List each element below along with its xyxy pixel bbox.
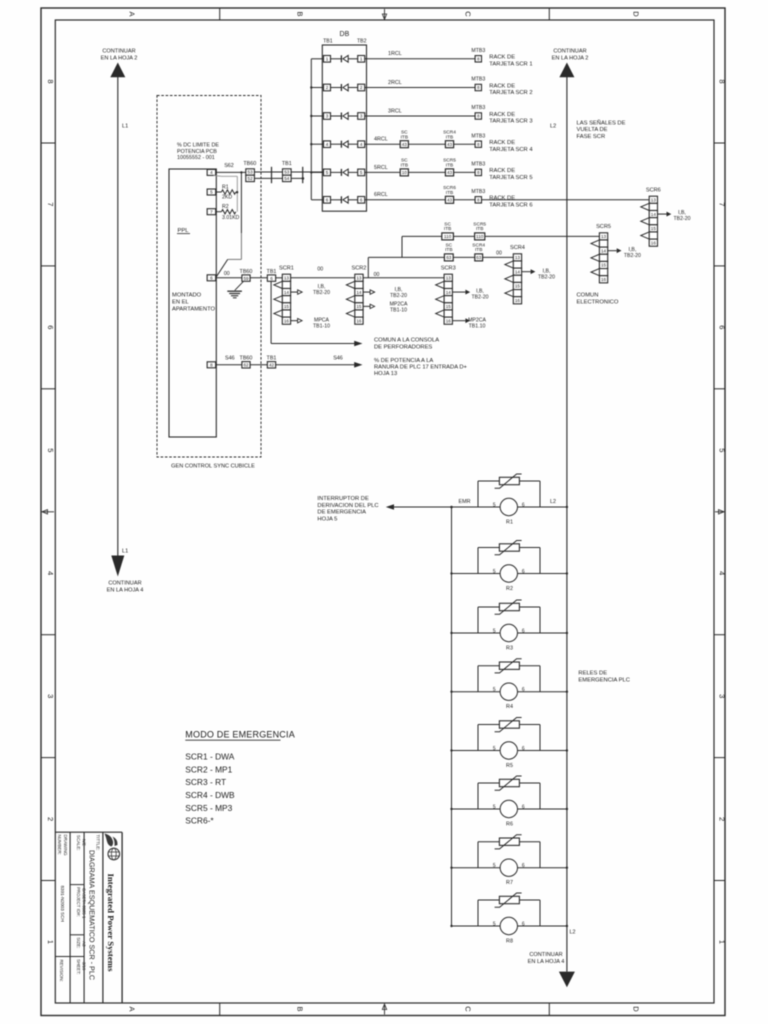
wire 4RCL row — [365, 143, 401, 145]
DB terminal TB1-6 — [324, 197, 331, 204]
svg-text:00: 00 — [224, 271, 230, 277]
svg-text:HOJA 13: HOJA 13 — [374, 371, 397, 377]
terminal 8 — [207, 362, 216, 368]
arrow SCR6-14 output — [658, 213, 667, 215]
svg-text:CONTINUAR: CONTINUAR — [529, 952, 562, 958]
svg-text:TB1.10: TB1.10 — [469, 324, 486, 330]
svg-text:TB1-10: TB1-10 — [313, 323, 330, 329]
DB row 2 bus stub wire — [311, 87, 323, 89]
svg-text:14: 14 — [356, 290, 362, 295]
svg-text:L1: L1 — [122, 124, 128, 130]
svg-text:CONTINUAR: CONTINUAR — [553, 49, 586, 55]
svg-text:63: 63 — [476, 255, 482, 260]
svg-text:RACK DE: RACK DE — [489, 112, 515, 118]
svg-text:ITB: ITB — [475, 247, 482, 253]
wire TB60-52 to tick end — [254, 177, 303, 179]
wire terminal 6 to TB60-59 — [216, 277, 242, 279]
svg-text:% DE POTENCIA A LA: % DE POTENCIA A LA — [374, 358, 433, 364]
relay left rail — [451, 507, 453, 926]
svg-text:PPL: PPL — [178, 228, 190, 234]
wire 6RCL row to SCR6 winding — [482, 199, 650, 201]
svg-text:16: 16 — [601, 277, 607, 282]
DB terminal TB1-1 — [324, 56, 331, 63]
svg-text:10055552 - 001: 10055552 - 001 — [177, 155, 215, 161]
svg-text:TARJETA SCR 4: TARJETA SCR 4 — [489, 147, 533, 153]
svg-text:00: 00 — [374, 272, 380, 278]
svg-text:S62: S62 — [224, 163, 234, 169]
svg-text:LAS SEÑALES DE: LAS SEÑALES DE — [577, 119, 626, 126]
varistor V5 — [495, 718, 522, 732]
svg-text:6: 6 — [718, 325, 727, 329]
varistor branch R8 — [478, 900, 540, 926]
junction EMR rail — [450, 506, 453, 509]
svg-text:R2: R2 — [506, 586, 513, 592]
svg-text:CASETA 8085-1: CASETA 8085-1 — [81, 888, 86, 919]
DB row 3 bus stub wire — [311, 115, 323, 117]
wire 2RCL row — [365, 87, 475, 89]
relay R1 row wire — [566, 506, 568, 508]
diode D1 — [331, 55, 358, 62]
DB terminal TB1-3 — [324, 113, 331, 120]
svg-text:DE PERFORADORES: DE PERFORADORES — [374, 344, 432, 350]
svg-text:6: 6 — [522, 746, 525, 752]
svg-text:SCR6-*: SCR6-* — [185, 816, 214, 826]
svg-text:5: 5 — [210, 190, 213, 195]
svg-text:3: 3 — [326, 114, 329, 119]
svg-text:6: 6 — [522, 502, 525, 508]
wire TB60-59 to TB1-6 — [250, 277, 267, 279]
svg-text:% DC LIMITE DE: % DC LIMITE DE — [177, 143, 219, 149]
svg-text:EN LA HOJA 2: EN LA HOJA 2 — [552, 56, 589, 62]
svg-text:6: 6 — [522, 628, 525, 634]
svg-text:MODO DE EMERGENCIA: MODO DE EMERGENCIA — [185, 730, 295, 740]
wire row 5 mid — [408, 171, 445, 173]
DB left bus wire — [310, 59, 312, 200]
DB terminal TB1-4 — [324, 141, 331, 148]
svg-text:6: 6 — [522, 569, 525, 575]
svg-text:2: 2 — [360, 85, 363, 90]
svg-text:1: 1 — [718, 940, 727, 944]
title block grid — [55, 832, 122, 1003]
grey vertical resistor bus — [236, 176, 238, 211]
relay coil R7 — [493, 859, 525, 886]
svg-text:5: 5 — [493, 863, 496, 869]
svg-text:1: 1 — [360, 57, 363, 62]
junction at terminal 4 wire — [240, 171, 242, 173]
wire SCR2-13 to SCR3-13 — [363, 277, 444, 279]
relay coil R1 — [493, 498, 525, 525]
cable tick mark 2 — [302, 167, 304, 183]
wire 110 row left — [402, 235, 442, 237]
svg-text:S46: S46 — [333, 356, 343, 362]
svg-text:TB1: TB1 — [282, 161, 292, 167]
svg-text:ITB: ITB — [445, 247, 452, 253]
svg-text:6RCL: 6RCL — [374, 192, 388, 198]
DB bus junction row 4 — [310, 143, 312, 145]
svg-text:RACK DE: RACK DE — [489, 196, 515, 202]
svg-text:TB1: TB1 — [267, 356, 277, 362]
DB row 6 bus stub wire — [311, 199, 323, 201]
varistor branch R4 — [478, 666, 540, 692]
svg-text:S46: S46 — [225, 356, 235, 362]
svg-text:INTERRUPTOR DE: INTERRUPTOR DE — [317, 496, 369, 502]
svg-text:5: 5 — [493, 569, 496, 575]
svg-text:TARJETA SCR 2: TARJETA SCR 2 — [489, 90, 532, 96]
svg-text:8391-N2003 SCH: 8391-N2003 SCH — [60, 886, 65, 922]
arrow continue sheet 4 (L2 bottom) — [559, 972, 575, 988]
svg-text:R3: R3 — [506, 646, 513, 652]
svg-text:RACK DE: RACK DE — [489, 83, 515, 89]
relay R5 row wire — [452, 750, 567, 752]
svg-text:RELES DE: RELES DE — [578, 671, 607, 677]
svg-text:14: 14 — [446, 290, 452, 295]
svg-text:6: 6 — [326, 198, 329, 203]
bottom margin center mark — [384, 1004, 386, 1015]
DB terminal TB2-1 — [358, 56, 365, 63]
relay coil R4 — [493, 683, 525, 710]
wire vertical 110-row feeder — [401, 236, 403, 257]
svg-text:R6: R6 — [506, 822, 513, 828]
wire 63 row mid — [453, 256, 475, 258]
svg-text:TB60: TB60 — [243, 161, 256, 167]
svg-text:SIZE:: SIZE: — [76, 937, 81, 948]
svg-text:R4: R4 — [506, 704, 513, 710]
DB row 4 bus stub wire — [311, 143, 323, 145]
wire TB1-6 to SCR1-13 — [276, 277, 283, 279]
svg-text:5: 5 — [360, 170, 363, 175]
wire end dot TB1-54 — [302, 177, 305, 180]
wire down from TB1-6 to consola arrow — [270, 281, 272, 343]
svg-text:DE EMERGENCIA: DE EMERGENCIA — [317, 510, 366, 516]
diode D6 — [331, 196, 358, 203]
svg-text:MTB3: MTB3 — [471, 162, 485, 168]
left margin center mark — [42, 511, 54, 513]
svg-text:15: 15 — [601, 263, 607, 268]
svg-text:4RCL: 4RCL — [374, 137, 388, 143]
wire EMR feed row — [393, 506, 567, 508]
svg-text:SCR3: SCR3 — [441, 266, 456, 272]
wire diagonal to terminal 6 — [216, 259, 227, 276]
svg-text:5: 5 — [493, 746, 496, 752]
svg-text:5: 5 — [493, 921, 496, 927]
svg-text:16: 16 — [515, 298, 521, 303]
inner mounting box (solid) — [169, 169, 216, 437]
relay R3 row wire — [452, 632, 567, 634]
svg-text:2: 2 — [326, 85, 329, 90]
DB row 1 bus stub wire — [311, 58, 323, 60]
svg-text:R2: R2 — [222, 204, 229, 210]
diode D3 — [331, 113, 358, 120]
right margin center mark — [715, 511, 724, 513]
svg-text:A: A — [128, 11, 137, 16]
svg-text:REVISION:: REVISION: — [59, 960, 64, 982]
svg-text:7: 7 — [46, 202, 55, 206]
svg-text:4: 4 — [210, 170, 213, 175]
svg-text:R1: R1 — [222, 184, 229, 190]
wire 1RCL row — [365, 58, 475, 60]
svg-text:GEN CONTROL SYNC CUBICLE: GEN CONTROL SYNC CUBICLE — [171, 464, 255, 470]
svg-text:1RCL: 1RCL — [388, 51, 402, 57]
svg-text:SCR5 - MP3: SCR5 - MP3 — [185, 803, 232, 813]
svg-text:FASE SCR: FASE SCR — [577, 134, 606, 140]
svg-text:APARTAMENTO: APARTAMENTO — [172, 307, 216, 313]
wire TB1-42 to potencia arrow — [276, 364, 356, 366]
svg-text:15: 15 — [356, 304, 362, 309]
svg-text:MTB3: MTB3 — [471, 77, 485, 83]
DB terminal TB2-6 — [358, 197, 365, 204]
net L1 vertical rail — [117, 77, 119, 557]
wire 110 row mid — [453, 235, 474, 237]
svg-text:6: 6 — [46, 325, 55, 329]
svg-text:RACK DE: RACK DE — [489, 168, 515, 174]
arrow to interruptor (left) — [386, 504, 394, 510]
wire SCR1-13 to SCR2-13 — [291, 277, 355, 279]
svg-text:59: 59 — [243, 276, 249, 281]
svg-text:6: 6 — [522, 921, 525, 927]
wire terminal 4 to TB60-53 — [216, 171, 246, 173]
svg-text:ITB: ITB — [401, 134, 408, 140]
svg-text:16: 16 — [446, 318, 452, 323]
svg-text:SCR1 - DWA: SCR1 - DWA — [185, 752, 234, 762]
svg-text:DERIVACION DEL PLC: DERIVACION DEL PLC — [317, 503, 378, 509]
svg-text:3: 3 — [46, 694, 55, 698]
svg-text:1: 1 — [326, 57, 329, 62]
relay coil R5 — [493, 742, 525, 769]
svg-text:HOJA 5: HOJA 5 — [317, 516, 337, 522]
svg-text:TARJETA SCR 3: TARJETA SCR 3 — [489, 119, 532, 125]
svg-text:TITTLE:: TITTLE: — [96, 835, 101, 851]
svg-text:4: 4 — [360, 142, 363, 147]
svg-text:DRAWING: DRAWING — [63, 835, 68, 857]
svg-text:TB1: TB1 — [323, 39, 333, 45]
svg-text:6: 6 — [360, 198, 363, 203]
svg-text:5RCL: 5RCL — [374, 165, 388, 171]
svg-text:43: 43 — [447, 170, 453, 175]
wire 3RCL row — [365, 115, 475, 117]
top margin zone ticks — [219, 8, 221, 20]
svg-text:L2: L2 — [550, 499, 556, 505]
DB terminal TB2-4 — [358, 141, 365, 148]
varistor V8 — [495, 893, 522, 907]
svg-text:TB2-20: TB2-20 — [673, 216, 690, 222]
svg-text:TB1-10: TB1-10 — [390, 307, 407, 313]
svg-text:14: 14 — [515, 269, 521, 274]
relay R6 row wire — [452, 808, 567, 810]
svg-text:R8: R8 — [506, 939, 513, 945]
DB terminal TB2-5 — [358, 169, 365, 176]
svg-text:TB1: TB1 — [267, 269, 277, 275]
diode D4 — [331, 141, 358, 148]
svg-text:8: 8 — [210, 363, 213, 368]
svg-text:5: 5 — [493, 804, 496, 810]
svg-text:14: 14 — [601, 248, 607, 253]
svg-text:8: 8 — [718, 79, 727, 83]
svg-text:C: C — [464, 11, 473, 17]
arrow SCR2-14 output — [363, 291, 370, 293]
svg-text:13: 13 — [446, 275, 452, 280]
svg-text:63: 63 — [446, 255, 452, 260]
svg-text:MTB3: MTB3 — [471, 48, 485, 54]
arrow continue sheet 2 (L1 top) — [110, 63, 125, 78]
varistor branch R6 — [478, 783, 540, 809]
wire 63 row left — [368, 256, 444, 258]
svg-text:SCR3 - RT: SCR3 - RT — [185, 777, 226, 787]
svg-text:5: 5 — [493, 687, 496, 693]
svg-text:EN LA HOJA 2: EN LA HOJA 2 — [101, 56, 138, 62]
svg-text:NUMBER:: NUMBER: — [57, 835, 62, 855]
arrow continue sheet 4 (L1 bottom) — [111, 556, 124, 577]
varistor branch R3 — [478, 607, 540, 633]
svg-text:ELECTRONICO: ELECTRONICO — [577, 300, 619, 306]
arrow continue sheet 2 (L2 top) — [559, 63, 574, 78]
varistor V3 — [495, 600, 522, 614]
svg-text:15: 15 — [515, 284, 521, 289]
DB terminal TB1-2 — [324, 84, 331, 91]
svg-text:DIAGRAMA ESQUEMATICO SCR - PLC: DIAGRAMA ESQUEMATICO SCR - PLC — [88, 850, 97, 980]
svg-text:TB2-20: TB2-20 — [471, 294, 488, 300]
DB bus junction row 2 — [310, 86, 312, 88]
svg-text:SCR5: SCR5 — [596, 224, 611, 230]
varistor branch R5 — [478, 725, 540, 751]
svg-text:ITB: ITB — [446, 134, 453, 140]
wire TB1-53 to DB terminal 5 — [291, 171, 323, 173]
svg-text:52: 52 — [248, 176, 254, 181]
varistor branch R1 — [478, 481, 540, 507]
svg-text:A: A — [128, 1006, 137, 1011]
svg-text:B: B — [296, 11, 305, 16]
svg-text:110: 110 — [476, 234, 484, 239]
DB bus junction row 3 — [310, 115, 312, 117]
arrow SCR1-14 output — [291, 291, 298, 293]
svg-text:C: C — [464, 1006, 473, 1012]
wire 5RCL row — [365, 171, 401, 173]
wire row 6 to MTB3 — [454, 199, 476, 201]
svg-text:MONTADO: MONTADO — [172, 293, 202, 299]
arrow SCR3-16 output — [452, 320, 465, 322]
grey link terminal 4 to resistor ladder — [214, 174, 238, 177]
svg-text:TB2-20: TB2-20 — [538, 275, 555, 281]
bottom margin zone ticks — [219, 1003, 221, 1016]
svg-text:R5: R5 — [506, 763, 513, 769]
svg-text:COMUN A LA CONSOLA: COMUN A LA CONSOLA — [374, 338, 439, 344]
svg-text:13: 13 — [515, 255, 521, 260]
dashed enclosure GEN CONTROL SYNC CUBICLE — [157, 96, 261, 458]
svg-text:2: 2 — [718, 817, 727, 821]
relay coil R3 — [493, 624, 525, 651]
svg-text:TB2: TB2 — [357, 39, 367, 45]
svg-text:2KD: 2KD — [222, 195, 232, 201]
wire row 4 to MTB3 — [454, 143, 476, 145]
junction R1 right end — [236, 191, 238, 193]
svg-text:13: 13 — [651, 197, 657, 202]
varistor V1 — [495, 474, 522, 488]
svg-text:14: 14 — [651, 212, 657, 217]
svg-text:MTB3: MTB3 — [471, 133, 485, 139]
svg-text:13: 13 — [284, 275, 290, 280]
svg-text:16: 16 — [284, 318, 290, 323]
svg-text:5: 5 — [493, 628, 496, 634]
diode D5 — [331, 169, 358, 176]
diode D2 — [331, 84, 358, 91]
DB terminal TB1-5 — [324, 169, 331, 176]
diode block DB outline — [322, 45, 366, 211]
svg-text:8: 8 — [46, 79, 55, 83]
svg-text:6: 6 — [522, 687, 525, 693]
svg-text:16: 16 — [356, 318, 362, 323]
svg-text:DB: DB — [340, 31, 350, 38]
DB row 5 bus stub wire — [311, 171, 323, 173]
svg-text:CONTINUAR: CONTINUAR — [102, 49, 135, 55]
svg-text:TB2-20: TB2-20 — [390, 293, 407, 299]
resistor R1 2KD — [216, 184, 236, 200]
svg-text:TB2-20: TB2-20 — [313, 290, 330, 296]
svg-text:4: 4 — [326, 142, 329, 147]
svg-text:13: 13 — [356, 275, 362, 280]
wire terminal 8 to TB60-62 — [216, 364, 242, 366]
svg-text:TARJETA SCR 1: TARJETA SCR 1 — [489, 61, 532, 67]
svg-text:6: 6 — [522, 804, 525, 810]
svg-text:A3: A3 — [81, 941, 86, 947]
wire row 4 mid — [408, 143, 445, 145]
svg-text:POTENCIA PCB: POTENCIA PCB — [177, 149, 217, 155]
arrow potencia a la ranura — [354, 362, 362, 368]
relay R8 row wire — [452, 925, 567, 927]
svg-text:L1: L1 — [122, 549, 128, 555]
svg-text:ITB: ITB — [446, 190, 453, 196]
wire vertical from junction down — [240, 172, 242, 233]
svg-text:3/16: 3/16 — [81, 962, 86, 971]
svg-text:CONTINUAR: CONTINUAR — [108, 581, 141, 587]
resistor R2 3.01KD — [216, 204, 240, 221]
svg-text:1: 1 — [46, 940, 55, 944]
svg-text:TARJETA SCR 5: TARJETA SCR 5 — [489, 175, 532, 181]
svg-text:ITB: ITB — [476, 226, 483, 232]
svg-text:3RCL: 3RCL — [388, 108, 402, 114]
svg-text:5: 5 — [718, 448, 727, 452]
svg-text:3: 3 — [718, 694, 727, 698]
svg-text:43: 43 — [402, 142, 408, 147]
DB terminal TB2-2 — [358, 84, 365, 91]
varistor V7 — [495, 835, 522, 849]
arrow SCR2-15 output — [363, 305, 370, 307]
wire row 5 to MTB3 — [454, 171, 476, 173]
svg-text:42: 42 — [269, 363, 275, 368]
svg-text:EN LA HOJA 4: EN LA HOJA 4 — [528, 959, 565, 965]
svg-text:VUELTA DE: VUELTA DE — [577, 127, 608, 133]
wire TB60-53 to TB1-53 — [254, 171, 282, 173]
svg-text:RACK DE: RACK DE — [489, 140, 515, 146]
arrow comun a la consola — [354, 341, 362, 347]
svg-text:3: 3 — [360, 114, 363, 119]
svg-text:L2: L2 — [550, 124, 556, 130]
svg-text:EN EL: EN EL — [172, 300, 190, 306]
terminal 7 — [207, 209, 216, 215]
terminal 4 — [207, 169, 216, 175]
relay coil R8 — [493, 917, 525, 944]
wire 6RCL row — [365, 199, 446, 201]
svg-text:7: 7 — [718, 202, 727, 206]
svg-text:16: 16 — [651, 240, 657, 245]
svg-text:D: D — [632, 11, 641, 17]
svg-text:SCR1: SCR1 — [279, 266, 294, 272]
left margin zone ticks — [41, 142, 55, 144]
wire horizontal to diagonal — [228, 258, 242, 260]
svg-text:43: 43 — [447, 142, 453, 147]
svg-text:L2: L2 — [570, 930, 576, 936]
svg-text:RANURA DE PLC 17 ENTRADA D+: RANURA DE PLC 17 ENTRADA D+ — [374, 364, 468, 370]
relay R7 row wire — [452, 867, 567, 869]
svg-text:62: 62 — [243, 363, 249, 368]
